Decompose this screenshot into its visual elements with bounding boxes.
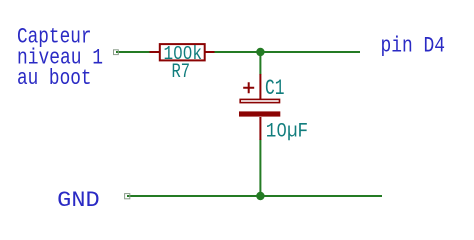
white counter patch for 100k zeros [177, 51, 180, 55]
svg-text:GND: GND [57, 188, 99, 213]
wire vertical from capacitor C1 bottom pin down to GND junction [259, 140, 261, 197]
capacitor C1 bottom plate [239, 111, 280, 116]
junction node at GND / C1 bottom [256, 192, 264, 200]
label attach square (GND) [125, 194, 130, 199]
junction node at R7 output / C1 top [256, 48, 264, 56]
capacitor C1 top plate [240, 99, 279, 102]
svg-text:C1: C1 [265, 76, 285, 101]
label attach square (Capteur niveau 1) [114, 50, 119, 55]
svg-text:10µF: 10µF [266, 121, 308, 144]
svg-text:pin D4: pin D4 [381, 34, 446, 59]
capacitor C1 top pin [259, 74, 261, 99]
resistor R7 right pin [206, 51, 215, 53]
resistor R7 body [160, 44, 205, 60]
wire vertical from top junction down to capacitor C1 pin [259, 49, 261, 75]
capacitor C1 plus sign [243, 82, 254, 93]
svg-text:R7: R7 [172, 61, 191, 84]
svg-text:au boot: au boot [17, 66, 92, 91]
resistor R7 left pin [150, 51, 160, 53]
wire from label "Capteur niveau 1" through resistor R7 to label "pin D4" [116, 51, 360, 53]
wire GND horizontal [127, 195, 382, 197]
white counter patch for 10uF zero [280, 128, 284, 132]
capacitor C1 bottom pin [259, 117, 261, 140]
